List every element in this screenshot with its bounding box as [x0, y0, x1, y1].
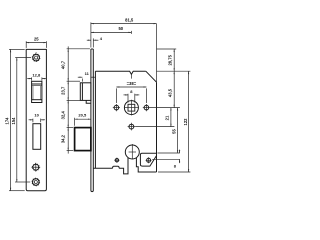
svg-text:23,7: 23,7 [60, 86, 65, 95]
dim 122 case height [188, 71, 190, 172]
case top right chamfer [146, 71, 157, 82]
extension line plate top left [9, 48, 25, 50]
dim 55 [177, 108, 179, 153]
svg-text:50: 50 [118, 26, 123, 31]
side hole right of follower [144, 105, 149, 110]
case top edge with V notch [95, 71, 145, 74]
extension line plate bottom left [9, 190, 25, 192]
dim 43,5 [173, 71, 175, 107]
latch bolt side view [80, 83, 91, 101]
svg-text:40,7: 40,7 [60, 60, 65, 69]
cylinder center cross [131, 144, 133, 159]
right boss with screw hole [140, 153, 156, 166]
svg-text:28,75: 28,75 [167, 54, 172, 65]
hole middle lower [33, 164, 39, 170]
case front edge [94, 71, 96, 168]
follower square hole [128, 104, 135, 111]
svg-text:32,4: 32,4 [60, 111, 65, 120]
case back edge [156, 82, 158, 172]
countersunk screw hole top [33, 54, 40, 61]
svg-text:154: 154 [11, 117, 16, 125]
case bottom profile left of cylinder [93, 158, 128, 174]
latch bolt bottom step [86, 100, 91, 103]
svg-text:122: 122 [183, 118, 188, 126]
latch bolt cutout [32, 81, 42, 102]
svg-text:34,2: 34,2 [60, 134, 65, 143]
extension line boss center right [152, 158, 180, 160]
left boss screw hole [115, 159, 118, 162]
chain boundary arrows [68, 49, 69, 52]
svg-text:81,5: 81,5 [125, 17, 134, 22]
extension line follower center right [150, 107, 180, 109]
dim 25 extension lines [25, 41, 27, 48]
case bottom profile right of cylinder [136, 158, 156, 172]
follower hub circle [124, 101, 138, 115]
extension from lower hole right [135, 126, 174, 128]
countersunk screw hole bottom [32, 179, 39, 186]
svg-text:25: 25 [34, 37, 39, 42]
follower center cross [130, 100, 132, 116]
svg-text:12,8: 12,8 [32, 72, 41, 77]
notch center tick [130, 75, 132, 79]
hole below follower [129, 124, 134, 129]
chain extension lines [67, 48, 90, 50]
svg-text:21: 21 [164, 115, 169, 120]
dim 25 [26, 42, 46, 44]
svg-text:20,5: 20,5 [78, 113, 87, 118]
deadbolt cutout [33, 124, 41, 150]
extension line case bottom right [158, 171, 190, 173]
faceplate side view edge [91, 49, 93, 192]
dim 21 [170, 108, 172, 127]
faceplate front view outline [26, 49, 46, 190]
dim 28,75 [173, 49, 175, 71]
extension line case back edge up [156, 24, 158, 83]
svg-text:=38=: =38= [127, 81, 137, 86]
dim 154 [16, 58, 18, 182]
svg-text:55: 55 [171, 129, 176, 134]
dim 174 [10, 49, 12, 190]
dim 8 boss to cylinder [179, 150, 181, 153]
side hole left of follower [114, 105, 119, 110]
deadbolt side view bold [75, 128, 91, 151]
cylinder circle [125, 145, 139, 159]
svg-text:10: 10 [34, 113, 39, 118]
extension line plate top right [157, 48, 177, 50]
left dim chain line [67, 46, 69, 153]
extension line cylinder center right [158, 152, 180, 154]
extension lines up from plate edges [90, 22, 92, 47]
extension line bottom screw [15, 181, 30, 183]
extension line case top right [157, 70, 191, 72]
extension line from top screw to 154 dim [15, 57, 31, 59]
svg-text:43,5: 43,5 [167, 88, 172, 97]
svg-text:174: 174 [5, 117, 10, 125]
latch bolt inside cutout [32, 83, 42, 85]
